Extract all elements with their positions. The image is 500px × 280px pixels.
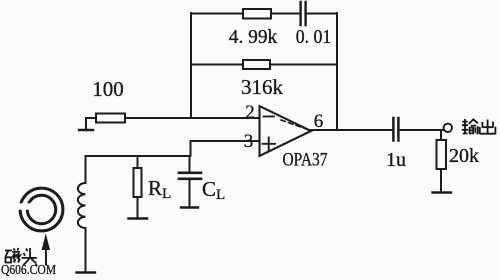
wire feedback left vertical <box>190 13 192 118</box>
wire pin3 input <box>191 140 260 142</box>
output terminal circle <box>444 124 452 132</box>
label 输出 (Chinese: output) <box>462 119 496 134</box>
ground (RL) <box>129 217 148 219</box>
label 20k <box>449 145 479 167</box>
label 4.99k <box>229 26 278 48</box>
label RL <box>148 176 171 202</box>
wire 20k bottom <box>440 169 442 192</box>
svg-text:316k: 316k <box>241 75 284 99</box>
capacitor 0.01 <box>301 2 306 25</box>
op-amp U1 OPA37 <box>260 106 312 156</box>
watermark Q606.COM <box>1 263 56 278</box>
svg-text:4. 99k: 4. 99k <box>229 26 278 48</box>
ground (input) <box>79 129 93 131</box>
wire 20k top <box>440 130 442 140</box>
inductor L (head coil) <box>78 156 86 272</box>
ground (CL) <box>181 206 198 208</box>
wire feedback top branch <box>191 13 337 15</box>
wire input ground to R 100 <box>86 118 96 130</box>
wire feedback right vertical <box>336 13 338 130</box>
label pin3 <box>244 131 254 152</box>
svg-text:20k: 20k <box>449 145 479 167</box>
svg-text:1u: 1u <box>386 149 406 171</box>
resistor 4.99k <box>243 9 271 19</box>
op-amp plus sign <box>263 138 276 151</box>
wire bottom node horizontal <box>86 155 191 157</box>
label 1u <box>386 149 406 171</box>
wire 316k branch <box>191 64 337 66</box>
wire CL bottom <box>189 180 191 207</box>
arrow to head <box>45 248 47 265</box>
wire pin2 input <box>125 117 259 119</box>
wire RL top <box>137 156 139 168</box>
svg-text:3: 3 <box>244 131 254 152</box>
label 0.01 <box>296 26 332 48</box>
label 100 <box>92 77 124 101</box>
svg-text:100: 100 <box>92 77 124 101</box>
op-amp minus sign <box>264 116 275 118</box>
resistor 20k <box>437 140 447 169</box>
wire RL bottom <box>137 197 139 218</box>
label pin2 <box>245 102 255 123</box>
label 316k <box>241 75 284 99</box>
op-amp dashes artifact <box>281 120 309 130</box>
magnetic head symbol <box>20 188 63 231</box>
svg-text:2: 2 <box>245 102 255 123</box>
resistor 316k <box>243 60 270 69</box>
label 磁头 (Chinese: magnetic head) <box>5 248 37 266</box>
wire pin3 to CL node <box>190 141 192 156</box>
svg-text:OPA37: OPA37 <box>283 151 328 171</box>
wire output pin6 <box>311 129 443 131</box>
label pin6 <box>314 111 324 132</box>
svg-text:6: 6 <box>314 111 324 132</box>
capacitor CL <box>179 173 201 179</box>
resistor 100 <box>96 114 125 123</box>
ground (coil) <box>77 271 96 273</box>
svg-text:Q606.COM: Q606.COM <box>1 263 56 278</box>
ground (20k) <box>433 191 452 193</box>
label CL <box>202 177 225 203</box>
label OPA37 <box>283 151 328 171</box>
resistor RL <box>134 168 142 197</box>
wire CL top <box>189 156 191 172</box>
capacitor 1u <box>393 118 398 141</box>
svg-text:0. 01: 0. 01 <box>296 26 332 48</box>
magnetic head gap <box>15 203 31 210</box>
